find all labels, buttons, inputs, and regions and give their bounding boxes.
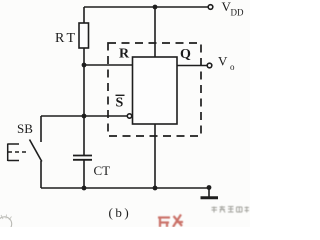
svg-text:RT: RT xyxy=(55,31,78,46)
svg-text:o: o xyxy=(230,62,235,72)
svg-text:(b): (b) xyxy=(109,205,132,220)
svg-text:CT: CT xyxy=(94,163,111,178)
svg-text:R: R xyxy=(119,47,130,62)
svg-text:SB: SB xyxy=(17,121,33,136)
svg-text:Q: Q xyxy=(180,47,191,62)
svg-text:S: S xyxy=(116,96,124,111)
svg-text:V: V xyxy=(218,54,228,69)
svg-text:DD: DD xyxy=(231,8,244,18)
